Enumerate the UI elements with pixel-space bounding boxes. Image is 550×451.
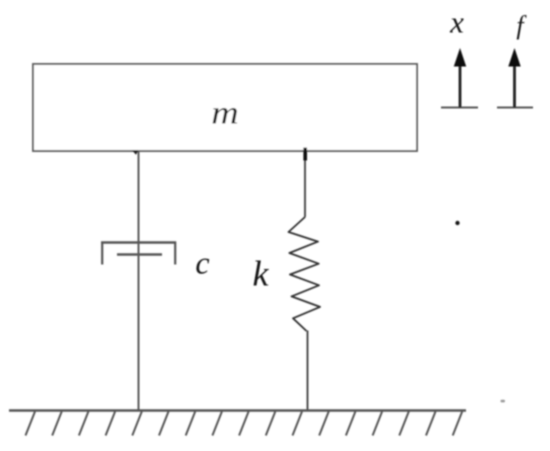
arrow x: head [454,48,466,67]
wire: spring bottom rod [307,331,309,412]
faint smudge artifact [501,400,506,403]
ground line [9,409,466,411]
node: damper-mass junction mark [132,150,139,155]
wire: damper rod lower [138,243,140,411]
svg-text:k: k [253,254,270,294]
stray dot artifact [455,221,459,225]
spring k coil [289,217,321,331]
svg-text:x: x [449,5,464,40]
arrow x: shaft [459,62,462,108]
damper c piston [117,253,162,255]
mass block m [33,64,417,151]
damper c cylinder left flange [101,242,103,265]
wire: damper rod upper [138,151,140,243]
wire: spring top rod [304,151,306,217]
arrow x: base line [441,107,478,109]
damper c cylinder right flange [174,242,176,265]
svg-text:m: m [211,96,239,132]
node: spring-mass junction mark [303,148,307,161]
svg-text:f: f [516,11,527,40]
svg-text:c: c [195,245,209,281]
arrow f: shaft [513,62,516,108]
damper c cylinder top plate [101,241,176,243]
arrow f: head [508,48,520,67]
ground hatching [26,412,463,436]
arrow f: base line [497,107,533,109]
